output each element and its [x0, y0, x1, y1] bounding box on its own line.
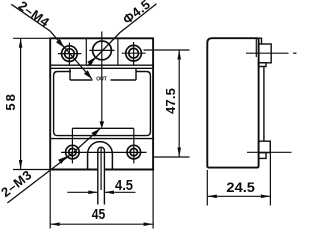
top bracket right stub — [135, 68, 137, 80]
leader 2-M3 arrow 2 — [91, 129, 100, 137]
top bracket left stub — [69, 68, 71, 80]
terminal divider left — [85, 38, 87, 65]
bottom hole B1 vertical line — [71, 128, 73, 163]
side top terminal tab — [259, 44, 272, 63]
dim 45 arrow right — [144, 222, 154, 226]
dim 47.5 arrow down — [177, 148, 181, 158]
leader phi4.5 — [88, 4, 157, 66]
side top centerline — [246, 52, 289, 54]
leader 2-M3 — [7, 129, 100, 203]
svg-text:47.5: 47.5 — [163, 88, 178, 114]
47.5 top extension line — [144, 49, 190, 51]
dim 45 right extension — [152, 170, 154, 229]
top terminal strip line 1 — [50, 64, 153, 66]
dim 24.5 arrow right — [261, 195, 271, 199]
dim 45 left extension — [49, 170, 51, 229]
bottom hole B1 outer — [66, 145, 80, 159]
dim 4.5 arrow right — [104, 191, 114, 195]
dim 58 line — [20, 38, 22, 169]
hole H2 (mounting hole) — [93, 41, 112, 60]
bottom hole B2 vertical line — [133, 128, 135, 163]
bottom hole B1 horizontal crosshair — [61, 151, 147, 153]
side rib — [263, 67, 265, 142]
dim 4.5 arrow left — [88, 191, 98, 195]
hole H2 vertical centerline — [101, 32, 103, 123]
centerline end arrow — [100, 121, 105, 128]
side top tab step — [259, 63, 266, 67]
dim 47.5 line — [178, 50, 180, 157]
svg-text:OUT: OUT — [96, 76, 107, 82]
dim 58 arrow down — [19, 160, 23, 170]
dim 58 bottom extension — [13, 169, 50, 171]
side bottom terminal tab — [259, 141, 271, 152]
dim 24.5 line — [207, 195, 270, 197]
dim 4.5 left segment — [67, 191, 98, 193]
svg-text:45: 45 — [92, 207, 106, 223]
leader phi4.5 arrow — [87, 57, 95, 66]
hole H2 horizontal crosshair — [89, 49, 114, 51]
bottom bracket bar — [72, 127, 133, 129]
side view body — [207, 38, 258, 167]
side top-right corner step — [259, 38, 262, 44]
dim 58 arrow up — [19, 38, 23, 48]
inner cover rectangle — [54, 72, 151, 136]
hole H3 outer — [126, 45, 142, 61]
svg-text:4.5: 4.5 — [115, 178, 133, 194]
dim 4.5 right segment — [104, 191, 135, 193]
top bracket bar left — [70, 79, 93, 81]
svg-text:58: 58 — [3, 92, 18, 110]
47.5 bottom extension line — [154, 156, 190, 158]
dim 58 top extension — [13, 37, 50, 39]
side seam line — [255, 39, 257, 57]
bottom hole B2 inner — [130, 148, 137, 155]
side bottom centerline — [247, 151, 292, 153]
top bracket bar right — [111, 79, 137, 81]
dim 24.5 left extension — [206, 170, 208, 206]
hole H3 inner — [129, 48, 139, 58]
leader 2-M3 arrow 1 — [58, 156, 67, 164]
leader 2-M4 arrow 1 — [56, 39, 64, 48]
front view body outline — [50, 38, 153, 169]
mounting slot — [98, 147, 105, 204]
terminal divider right — [117, 38, 119, 65]
bottom arch — [88, 142, 113, 170]
dim 45 line — [50, 223, 153, 225]
dim 47.5 arrow up — [177, 50, 181, 60]
hole H1 outer — [62, 46, 78, 62]
dim 24.5 arrow left — [207, 195, 217, 199]
hole H3 crosshair — [122, 42, 146, 65]
bottom strip line 2 — [50, 138, 153, 140]
hole H1 crosshair — [58, 43, 81, 66]
dim 45 arrow left — [50, 222, 60, 226]
leader 2-M4 — [11, 4, 92, 79]
dim 24.5 right extension — [269, 141, 271, 205]
top terminal strip line 2 — [50, 67, 153, 69]
hole H1 inner — [65, 49, 75, 59]
side top centerline dash — [293, 52, 297, 54]
bottom hole B1 inner — [69, 148, 76, 155]
side bottom tab step — [259, 153, 266, 159]
slot centerline — [100, 148, 102, 190]
svg-text:24.5: 24.5 — [226, 179, 255, 195]
leader 2-M4 arrow 2 — [84, 70, 92, 79]
bottom hole B2 outer — [127, 145, 141, 159]
